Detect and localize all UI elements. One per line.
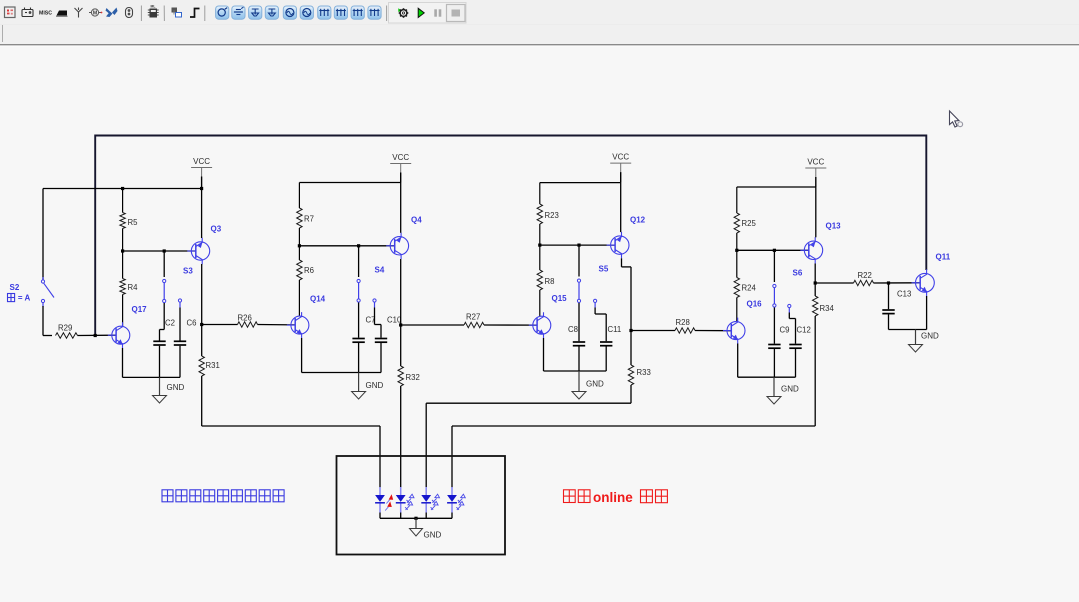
node: bias/switch junction section 3 [577,244,580,247]
wire: S2 to R29 [42,306,44,336]
mouse cursor [950,111,959,127]
wire: LED1 cathode lead [379,513,381,519]
LED1 lit indicator arrows (red) [385,500,389,511]
switch S6 branch wire [773,250,775,282]
svg-text:S5: S5 [599,265,609,274]
toolbar icon: spectrum analyzer [368,6,381,19]
wire: S5 to C8 [578,303,580,337]
ground LED box [415,518,417,528]
resistor R23 [539,183,541,204]
toolbar icon: multimeter [216,6,229,19]
resistor R34 [813,296,818,316]
svg-text:S6: S6 [793,269,803,278]
toolbar icon: bus [190,9,200,18]
wire: section 4 VCC rail [737,186,816,188]
svg-text:R33: R33 [637,368,651,377]
svg-text:R6: R6 [304,266,314,275]
svg-text:R23: R23 [545,211,559,220]
wire: section 3 base bias wire [540,244,616,246]
svg-text:C6: C6 [187,319,197,328]
svg-text:Q16: Q16 [747,300,763,309]
svg-text:C11: C11 [608,325,622,334]
svg-text:GND: GND [921,332,939,341]
svg-text:GND: GND [586,380,604,389]
node: VCC rail / VCC stub junction [200,187,203,190]
resistor R24 [736,250,738,277]
toolbar separator [163,6,165,22]
node: R5 top junction [121,187,124,190]
ground section 2 [358,373,360,392]
svg-text:C8: C8 [568,325,578,334]
wire: R29 to Q17 base [78,334,117,336]
switch S5 [577,279,580,282]
toolbar icon: four-channel oscilloscope [283,6,296,19]
toolbar icon: MCU module [148,9,159,18]
svg-text:R26: R26 [238,314,252,323]
capacitor C12 [795,339,797,344]
wire: S4 throw 2 to C10 [374,308,376,325]
capacitor C11 [605,337,607,342]
wire: VCC to Q4 emitter [400,183,402,233]
svg-text:R7: R7 [304,215,314,224]
resistor R31 [199,356,204,376]
wire: Q11 emitter to ground [926,296,928,330]
node: R22 / C13 / Q11 base junction [887,281,890,284]
LED LED2 [400,481,402,488]
ground section 1 [159,377,161,395]
svg-text:S4: S4 [375,266,385,275]
svg-text:Q14: Q14 [310,295,326,304]
wire: S6 throw 2 to C12 [788,313,790,319]
switch S5 branch wire [578,245,580,276]
svg-text:S3: S3 [183,267,193,276]
LED LED3 [425,481,427,488]
wire: section 3 VCC rail [540,182,621,184]
LED enclosure box [337,456,506,555]
svg-text:VCC: VCC [392,153,409,162]
wire: R34 to LED4 bus [814,316,816,426]
transistor Q4 [386,233,408,259]
transistor Q17 [108,322,130,348]
transistor Q15 [529,312,551,338]
switch S4 [357,279,360,282]
transistor Q16 [723,318,745,344]
svg-text:GND: GND [366,381,384,390]
wire: section 4 base bias wire [737,249,809,251]
resistor R22 [815,282,853,284]
resistor R27 [401,324,464,326]
LED LED1 [379,481,381,488]
svg-text:R22: R22 [858,271,872,280]
node: bias/switch junction section 4 [773,249,776,252]
node: R5/R4 divider junction [121,249,124,252]
svg-text:R25: R25 [742,219,757,228]
wire: top feedback net (Q11 collector to Q17 base rail) [95,136,926,336]
switch S2 [42,277,44,280]
wire: Q15 emitter to ground rail [543,338,545,371]
wire: S6 to C9 [773,308,775,340]
wire: VCC to Q3 emitter [201,189,203,239]
node: output / R26 junction [200,323,203,326]
svg-text:C13: C13 [897,290,911,299]
svg-text:MISC: MISC [39,11,52,17]
svg-text:R34: R34 [820,304,835,313]
svg-text:VCC: VCC [612,153,629,162]
toolbar background [0,0,1079,44]
resistor R5 [122,189,124,213]
resistor R7 [298,183,300,209]
toolbar icon: function generator [232,6,245,19]
capacitor C2 [159,330,161,341]
resistor R6 [298,246,300,260]
toolbar icon: NI blue eagle [106,8,118,18]
svg-text:Q4: Q4 [411,216,422,225]
node: R25/R24 junction [735,249,738,252]
toolbar separator [204,6,206,22]
wire: Q14 emitter to ground rail [301,338,303,373]
wire: Q17 emitter to ground rail [122,348,124,377]
wire: Q12 collector output with jog [621,258,623,267]
wire: Q4 collector output [400,259,402,366]
resistor R28 [631,330,675,332]
LED LED4 [451,481,453,488]
ground section 4 [773,377,775,396]
resistor R33 [628,365,633,385]
toolbar separator [386,6,388,22]
switch S6 [773,284,776,287]
toolbar icon: wattmeter [249,6,262,19]
resistor R26 [202,324,238,326]
svg-text:R8: R8 [545,277,555,286]
wire: section 1 VCC rail [43,188,202,190]
toolbar icon: logic analyzer [334,6,347,19]
svg-text:R31: R31 [206,361,220,370]
svg-text:Q15: Q15 [552,294,568,303]
ground Q11 [915,330,917,345]
capacitor C13 [888,283,890,309]
toolbar icon: electromechanical (motor) [89,9,102,16]
toolbar icon: connector [126,8,133,18]
toolbar/canvas boundary line [0,44,1079,46]
toolbar icon: play [418,8,424,17]
wire: S3 throw 2 to C6 [179,308,181,335]
svg-text:S2: S2 [10,283,20,292]
svg-text:R27: R27 [466,313,480,322]
transistor Q13 [800,237,822,263]
node: feedback wire / base junction [94,334,97,337]
wire: S4 to C7 [358,303,360,334]
wire: S5 throw 2 to C11 [594,308,596,315]
switch S4 branch wire [358,246,360,277]
wire: S3 to C2 [163,303,165,330]
node: cathode rail / ground stub [414,517,417,520]
wire: LED2 cathode lead [400,513,402,519]
switch S3 branch wire [163,251,165,277]
transistor Q3 [187,238,209,264]
ground section 3 [578,371,580,392]
transistor Q12 [607,232,629,258]
toolbar icon: logic converter [351,6,364,19]
resistor R4 [122,251,124,279]
wire: LED4 cathode lead [451,513,453,519]
node: R23/R8 junction [538,244,541,247]
wire: LED common cathode rail [380,517,452,519]
svg-text:C9: C9 [780,326,790,335]
node: bias/switch junction [163,249,166,252]
svg-text:GND: GND [167,383,185,392]
node: output / R28 junction [629,329,632,332]
capacitor C9 [773,339,775,344]
wire: section 1 base bias wire [123,250,196,252]
svg-text:ML: ML [151,5,156,9]
svg-text:M: M [93,11,98,17]
LED emission arrows [456,494,465,510]
wire: LED3 cathode lead [425,513,427,519]
svg-text:C10: C10 [387,316,402,325]
LED emission arrows [431,494,440,510]
capacitor C7 [358,333,360,338]
svg-text:C2: C2 [165,319,175,328]
svg-text:Q3: Q3 [211,225,222,234]
svg-text:GND: GND [424,531,442,540]
second toolbar row left separator [2,25,4,42]
toolbar icon: RF antenna [75,8,83,18]
toolbar icon: indexed components [5,7,16,18]
node: bias/switch junction section 2 [357,244,360,247]
svg-text:online: online [593,490,633,505]
simulation toolbar group frame [389,3,467,24]
wire: section 2 base bias wire [299,245,395,247]
switch S3 [163,279,166,282]
svg-text:VCC: VCC [193,157,210,166]
node: R7/R6 junction [298,244,301,247]
LED emission arrows [405,494,414,510]
node: output / R27 junction [399,323,402,326]
svg-text:R28: R28 [676,318,690,327]
capacitor C10 [380,333,382,338]
wire: VCC to Q13 emitter [815,187,817,237]
svg-text:Q13: Q13 [826,222,842,231]
svg-text:R4: R4 [128,283,139,292]
svg-text:R24: R24 [742,284,757,293]
title: maker credit (red) [564,490,576,503]
resistor R29 [56,333,78,338]
toolbar icon: battery/source [22,8,33,17]
resistor R25 [736,187,738,213]
resistor R8 [539,245,541,270]
toolbar icon: monitor [56,11,68,17]
toolbar icon: run/gear [398,8,408,18]
svg-text:GND: GND [781,385,799,394]
title: chinese circuit title (blue) [162,490,173,502]
toolbar icon: pause [434,9,441,16]
toolbar icon: oscilloscope [265,6,278,19]
wire: R32 to LED2 [400,386,402,481]
node: output / R22 junction [814,281,817,284]
toolbar icon: word generator [318,6,331,19]
wire: section 2 VCC rail [299,182,400,184]
toolbar icon: stop button [447,5,466,22]
capacitor C8 [578,337,580,342]
wire: Q3 collector output [201,264,203,356]
svg-text:Q17: Q17 [132,305,148,314]
toolbar icon: bode plotter [300,6,313,19]
wire: Q13 collector output [814,264,816,297]
label S2 key = A [8,294,15,302]
toolbar separator [140,6,142,22]
svg-text:R29: R29 [58,324,72,333]
svg-text:Q12: Q12 [630,216,646,225]
svg-text:R32: R32 [406,373,420,382]
svg-text:Q11: Q11 [936,253,951,262]
svg-text:R5: R5 [128,218,139,227]
svg-text:= A: = A [18,294,31,303]
svg-text:C12: C12 [797,326,811,335]
svg-text:VCC: VCC [807,158,824,167]
toolbar icon: hierarchical block [172,8,182,18]
resistor R32 [398,366,403,386]
wire: Q16 emitter to ground rail [737,344,739,378]
transistor Q14 [287,312,309,338]
wire: R31 to LED bus [201,376,203,426]
transistor Q11 [912,269,935,296]
wire: R33 to LED3 bus [630,385,632,403]
wire: VCC to Q12 emitter [620,183,622,233]
capacitor C6 [179,335,181,341]
